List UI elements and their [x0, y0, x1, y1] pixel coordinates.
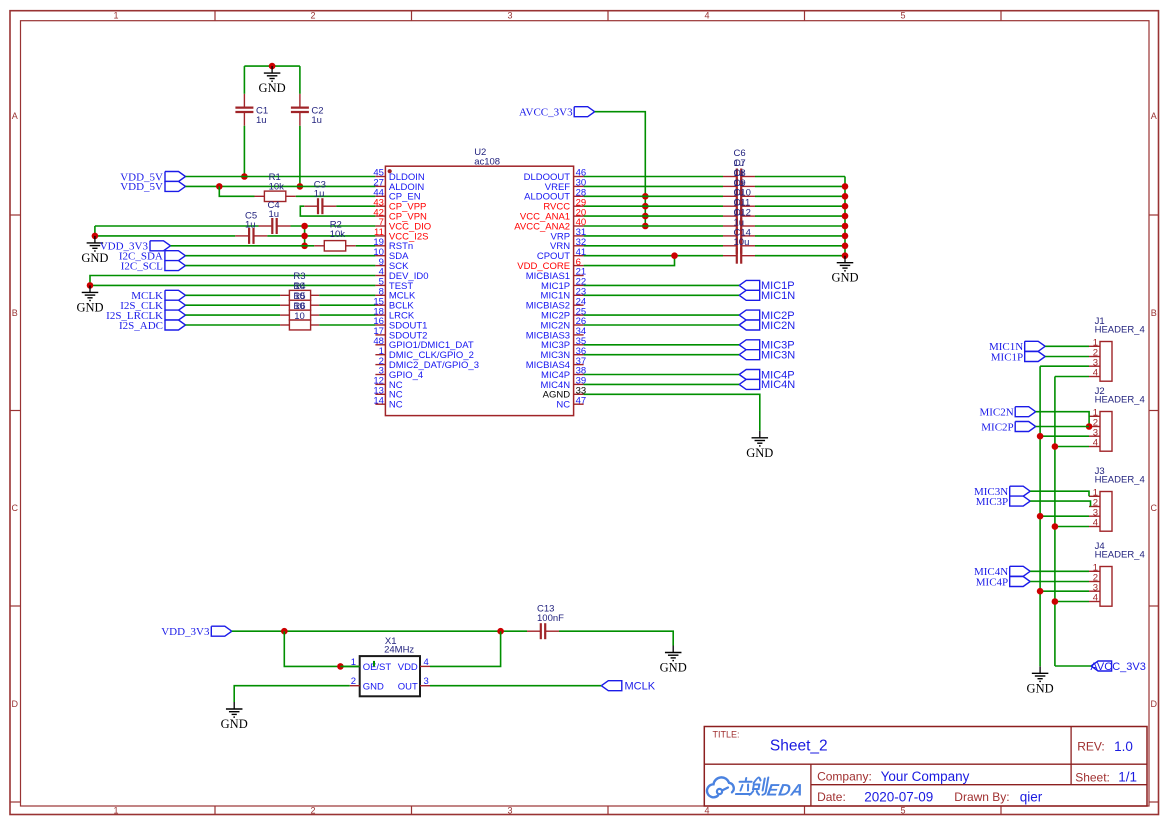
pin 40 AVCC_ANA2: [514, 217, 586, 232]
J3 pin 4: [1089, 518, 1100, 529]
pin 9 SCK: [375, 257, 409, 272]
J2 pin 3: [1089, 427, 1100, 438]
pin 34 MICBIAS3: [526, 326, 586, 341]
pin 39 MIC4N: [541, 376, 587, 391]
bus A vertical: [1039, 366, 1041, 666]
pin 18 LRCK: [373, 306, 415, 321]
wire row11: [95, 235, 235, 237]
pin 15 BCLK: [373, 296, 414, 311]
wire MIC1P pin2: [1045, 356, 1089, 358]
wire cap to bus 2: [755, 195, 845, 197]
pin 8 MCLK: [375, 287, 416, 302]
junction X1 pin1: [337, 663, 344, 670]
resistor R2: [314, 219, 355, 251]
wire J1 pin3: [1040, 365, 1089, 367]
svg-text:REV:: REV:: [1077, 740, 1105, 754]
pin 26 MIC2N: [541, 316, 587, 331]
resistor stack labels: [293, 271, 305, 322]
svg-text:A: A: [12, 111, 18, 121]
wire SCL: [185, 265, 375, 267]
svg-text:5: 5: [900, 806, 905, 816]
ground AGND: [746, 431, 773, 460]
svg-text:MIC4P: MIC4P: [976, 576, 1008, 588]
wire MIC3N jog: [1030, 491, 1089, 496]
junction rail a: [281, 628, 288, 635]
junction busA: [1037, 513, 1044, 520]
wire J2 pin3: [1040, 435, 1089, 437]
wire J2 pin4: [1055, 446, 1089, 448]
svg-text:HEADER_4: HEADER_4: [1095, 324, 1145, 335]
wire to port MIC1P: [584, 284, 740, 286]
pin 46 DLDOOUT: [524, 168, 587, 183]
svg-text:3: 3: [507, 11, 512, 21]
svg-text:VDD: VDD: [398, 662, 418, 673]
wire pin row to cap 2: [584, 195, 723, 197]
pin 42 CP_VPN: [373, 207, 427, 222]
junction GND2: [87, 282, 94, 289]
wire C1 bottom: [243, 126, 245, 177]
junction bus: [842, 213, 849, 220]
svg-text:1/1: 1/1: [1118, 770, 1137, 785]
capacitor C1: [235, 94, 268, 126]
J3 pin 2: [1089, 498, 1100, 509]
svg-text:47: 47: [576, 395, 587, 406]
connector J2 body: [1095, 386, 1145, 451]
bus verticals rows 7-11-19: [304, 226, 306, 246]
pin 5 TEST: [375, 277, 413, 292]
junction bus row19: [301, 243, 308, 250]
wire J4 pin4: [1055, 601, 1089, 603]
junction C1 row45: [241, 173, 248, 180]
wire VDD_5V to pin45: [186, 176, 376, 178]
port MIC1N: [989, 341, 1045, 353]
capacitor bank 0: [723, 169, 755, 185]
svg-text:MIC3N: MIC3N: [761, 350, 795, 362]
J2 pin 1: [1089, 408, 1100, 419]
port MIC1P: [739, 280, 794, 292]
port I2C_SCL: [121, 260, 186, 272]
svg-text:ac108: ac108: [474, 156, 500, 167]
pin 21 MICBIAS1: [526, 267, 586, 282]
capacitor bank 3: [723, 198, 755, 214]
bus B vertical: [1054, 377, 1056, 667]
J4 pin 1: [1089, 563, 1100, 574]
wire X1 pin3 to MCLK: [430, 685, 601, 687]
wire cap to bus 4: [755, 215, 845, 217]
capacitor C4: [259, 200, 291, 234]
capacitor bank 8: [723, 248, 755, 264]
svg-text:NC: NC: [556, 400, 570, 411]
pin 44 CP_EN: [373, 188, 420, 203]
port MIC1N: [739, 290, 795, 302]
wire J3 pin3: [1040, 515, 1089, 517]
svg-text:GND: GND: [221, 717, 248, 731]
svg-text:4: 4: [1093, 438, 1098, 449]
port MCLK: [131, 290, 185, 302]
pin 23 MIC1N: [541, 287, 587, 302]
wire C13 to GND: [559, 631, 673, 645]
ground C13: [660, 646, 687, 675]
junction AVCC: [642, 223, 649, 230]
pin 29 RVCC: [543, 197, 586, 212]
port MIC4N: [739, 379, 795, 391]
svg-text:2: 2: [310, 11, 315, 21]
pin 10 SDA: [373, 247, 409, 262]
junction bus: [842, 243, 849, 250]
pin 7 VCC_DIO: [375, 217, 431, 232]
pin 22 MIC1P: [541, 277, 586, 292]
port MIC3P: [976, 496, 1030, 508]
wire C3 left branch: [300, 206, 375, 216]
junction C2 row27: [297, 183, 304, 190]
svg-text:GND: GND: [660, 661, 687, 675]
svg-text:MIC1N: MIC1N: [761, 290, 795, 302]
port MIC4N: [974, 566, 1030, 578]
junction bus: [842, 183, 849, 190]
J4 pin 3: [1089, 582, 1100, 593]
wire C2 bottom: [299, 126, 301, 187]
wire pin row to cap 6: [584, 235, 723, 237]
port I2S_LRCLK: [106, 310, 185, 322]
J1 pin 2: [1089, 348, 1100, 359]
wire MIC4P pin2: [1030, 581, 1089, 583]
wire I2S_CLK to resistor: [186, 304, 281, 306]
wire C1 top to C2 top: [244, 65, 300, 67]
pin 25 MIC2P: [541, 306, 586, 321]
junction busB: [1052, 523, 1059, 530]
wire cap to bus 5: [755, 225, 845, 227]
wire I2S_LRCLK to resistor: [186, 314, 281, 316]
junction bus: [842, 223, 849, 230]
svg-text:2: 2: [310, 806, 315, 816]
svg-text:2020-07-09: 2020-07-09: [864, 789, 933, 804]
svg-text:4: 4: [1093, 518, 1098, 529]
capacitor C3: [304, 180, 336, 215]
port MIC2N: [979, 407, 1035, 419]
svg-text:10: 10: [294, 311, 305, 322]
pin 12 NC: [373, 376, 402, 391]
ground left 1: [81, 236, 108, 265]
pin 48 GPIO1/DMIC1_DAT: [373, 336, 474, 351]
pin 11 VCC_I2S: [374, 227, 428, 242]
svg-text:I2C_SCL: I2C_SCL: [121, 260, 163, 272]
port MIC1P: [991, 351, 1045, 363]
wire to port MIC2N: [584, 324, 740, 326]
svg-text:MIC3P: MIC3P: [976, 496, 1008, 508]
wire R5 to pin: [319, 314, 375, 316]
connector J3 body: [1095, 466, 1145, 531]
svg-text:1u: 1u: [256, 115, 267, 126]
wire branch down to R1: [219, 186, 254, 196]
wire MIC3P jog: [1030, 501, 1090, 506]
wire pin row to cap 0: [584, 176, 723, 178]
wire to port MIC3N: [584, 354, 740, 356]
ground top: [259, 66, 286, 95]
pin 43 CP_VPP: [373, 197, 426, 212]
wire to port MIC2P: [584, 314, 740, 316]
svg-text:MIC4N: MIC4N: [761, 379, 795, 391]
wire pin row to cap 3: [584, 205, 723, 207]
junction J2: [1086, 423, 1093, 430]
pin 1 DMIC_CLK/GPIO_2: [375, 346, 474, 361]
svg-text:2: 2: [351, 676, 356, 687]
port MCLK bottom: [601, 681, 655, 693]
svg-text:5: 5: [900, 11, 905, 21]
wire MIC2P pin2: [1036, 426, 1089, 428]
connector J1 body: [1095, 316, 1145, 381]
junction busA: [1037, 433, 1044, 440]
wire R2 to pin19: [356, 245, 376, 247]
wire to port MIC3P: [584, 344, 740, 346]
svg-text:3: 3: [507, 806, 512, 816]
svg-text:1.0: 1.0: [1114, 739, 1133, 754]
pin 6 VDD_CORE: [517, 257, 583, 272]
port I2S_CLK: [120, 300, 185, 312]
wire cap to bus 1: [755, 185, 845, 187]
pin 4 DEV_ID0: [375, 267, 428, 282]
svg-text:Sheet:: Sheet:: [1075, 770, 1110, 784]
wire VDD_3V3 to R2: [171, 245, 315, 247]
pin 16 SDOUT1: [373, 316, 427, 331]
junction busA: [1037, 588, 1044, 595]
pin 33 AGND: [543, 386, 587, 401]
port VDD_5V a: [120, 171, 185, 183]
svg-text:HEADER_4: HEADER_4: [1095, 549, 1145, 560]
wire row7 from corner: [94, 226, 96, 236]
junction R1 branch: [216, 183, 223, 190]
resistor R4: [280, 300, 319, 310]
junction AVCC: [642, 213, 649, 220]
capacitor C13: [527, 603, 564, 639]
op-amp U2 ac108 body: [385, 147, 573, 416]
pin 47 NC: [556, 395, 586, 410]
svg-text:4: 4: [704, 806, 709, 816]
wire VDD_CORE: [584, 256, 675, 266]
J1 pin 4: [1089, 368, 1100, 379]
wire C3 to pin43: [336, 205, 375, 207]
wire pin row to cap 1: [584, 185, 723, 187]
svg-text:qier: qier: [1020, 789, 1043, 804]
svg-text:Your Company: Your Company: [881, 769, 970, 784]
capacitor bank 6: [723, 228, 755, 244]
svg-text:Date:: Date:: [817, 790, 846, 804]
svg-text:NC: NC: [389, 400, 403, 411]
svg-text:B: B: [1151, 308, 1157, 318]
wire J1 pin4: [1055, 376, 1089, 378]
wire cap to bus 0: [755, 176, 845, 178]
wire cap to bus 6: [755, 235, 845, 237]
pin 28 ALDOOUT: [524, 188, 586, 203]
port AVCC_3V3 bottom: [1090, 661, 1145, 673]
svg-text:10u: 10u: [734, 237, 750, 248]
junction rail b: [497, 628, 504, 635]
svg-text:1u: 1u: [311, 115, 322, 126]
wire C4 to bus: [291, 225, 376, 227]
J4 pin 2: [1089, 573, 1100, 584]
svg-text:3: 3: [424, 676, 429, 687]
wire AGND: [584, 394, 760, 431]
svg-text:A: A: [1151, 111, 1157, 121]
svg-text:Drawn By:: Drawn By:: [954, 790, 1009, 804]
wire J3 pin4: [1055, 526, 1089, 528]
svg-text:24MHz: 24MHz: [384, 645, 414, 656]
port MIC2P: [981, 421, 1035, 433]
wire R4 to pin: [319, 304, 375, 306]
svg-text:C: C: [11, 503, 18, 513]
svg-text:10k: 10k: [269, 181, 285, 192]
svg-text:VDD_5V: VDD_5V: [120, 181, 163, 193]
pin 19 RSTn: [373, 237, 413, 252]
J4 pin 4: [1089, 593, 1100, 604]
port VDD_5V b: [120, 181, 185, 193]
svg-text:VDD_3V3: VDD_3V3: [161, 626, 210, 638]
svg-text:TITLE:: TITLE:: [713, 730, 740, 740]
junction top GND: [269, 63, 276, 70]
ground cap bank: [831, 256, 858, 285]
svg-text:Company:: Company:: [817, 769, 872, 783]
wire R6 to pin: [319, 324, 375, 326]
svg-text:GND: GND: [831, 271, 858, 285]
pin 17 SDOUT2: [373, 326, 427, 341]
junction bus row7: [301, 223, 308, 230]
wire I2S_ADC to resistor: [186, 324, 281, 326]
resistor R1: [254, 172, 295, 202]
J2 pin 2: [1089, 418, 1100, 429]
junction AVCC: [642, 193, 649, 200]
port MIC3N: [739, 350, 795, 362]
resistor R6: [280, 320, 319, 330]
wire MCLK to resistor: [186, 294, 281, 296]
wire MIC2N jog: [1036, 412, 1089, 427]
wire into X1 pin1 overlay: [340, 665, 359, 667]
pin 37 MICBIAS4: [526, 356, 586, 371]
wire row4 DEV_ID0: [90, 276, 375, 286]
pin 35 MIC3P: [541, 336, 586, 351]
title block: [704, 727, 1147, 807]
svg-text:OE/ST: OE/ST: [363, 662, 392, 673]
svg-text:MIC2N: MIC2N: [761, 320, 795, 332]
resistor R5: [280, 310, 319, 320]
wire row5 TEST: [90, 284, 375, 286]
junction bus: [842, 193, 849, 200]
port I2C_SDA: [119, 251, 186, 263]
port VDD_3V3: [100, 241, 171, 253]
cap bank labels: [734, 148, 751, 248]
capacitor bank 7: [723, 238, 755, 254]
svg-text:Sheet_2: Sheet_2: [770, 738, 828, 755]
resistor R3: [280, 290, 319, 300]
port MIC2P: [739, 310, 794, 322]
port I2S_ADC: [119, 320, 186, 332]
wire C5 to bus: [267, 235, 375, 237]
capacitor bank 4: [723, 208, 755, 224]
svg-text:MIC2P: MIC2P: [981, 421, 1013, 433]
port VDD_3V3 bottom: [161, 626, 232, 638]
pin 27 ALDOIN: [373, 178, 424, 193]
pin 36 MIC3N: [541, 346, 587, 361]
svg-text:GND: GND: [259, 81, 286, 95]
wire pin row to cap 7: [584, 245, 723, 247]
J1 pin 1: [1089, 338, 1100, 349]
J3 pin 1: [1089, 488, 1100, 499]
svg-text:C: C: [1150, 503, 1157, 513]
junction busB: [1052, 443, 1059, 450]
svg-text:HEADER_4: HEADER_4: [1095, 474, 1145, 485]
bus right vertical: [844, 177, 846, 256]
wire pin row to cap 4: [584, 215, 723, 217]
svg-text:D: D: [11, 699, 18, 709]
pin 13 NC: [373, 386, 402, 401]
ground headers: [1027, 666, 1054, 695]
wire C2 vertical: [299, 66, 301, 94]
svg-text:GND: GND: [746, 446, 773, 460]
port MIC2N: [739, 320, 795, 332]
svg-text:MIC1P: MIC1P: [991, 351, 1023, 363]
pin 31 VRP: [551, 227, 587, 242]
svg-text:4: 4: [424, 657, 429, 668]
capacitor C5: [235, 211, 267, 244]
pin 3 GPIO_4: [375, 366, 423, 381]
connector J4 body: [1095, 541, 1145, 606]
wire R1 to pin44: [296, 195, 376, 197]
pin 32 VRN: [550, 237, 586, 252]
svg-text:I2S_ADC: I2S_ADC: [119, 320, 163, 332]
svg-text:AVCC_3V3: AVCC_3V3: [519, 107, 573, 119]
wire MIC4N pin1: [1030, 570, 1089, 572]
svg-text:HEADER_4: HEADER_4: [1095, 394, 1145, 405]
wire X1 pin1 branch: [284, 631, 359, 666]
wire pin row to cap 5: [584, 225, 723, 227]
junction bus: [842, 203, 849, 210]
svg-text:10k: 10k: [330, 229, 346, 240]
svg-text:4: 4: [1093, 593, 1098, 604]
wire C1 vertical: [243, 66, 245, 94]
wire X1 pin2 to GND: [234, 686, 350, 702]
port MIC4P: [739, 369, 794, 381]
ground left 2: [76, 285, 103, 314]
svg-text:MIC2N: MIC2N: [979, 407, 1013, 419]
svg-text:1u: 1u: [314, 188, 325, 199]
wire VDD_5V to pin27: [186, 185, 376, 187]
wire cap to bus 3: [755, 205, 845, 207]
wire AVCC_3V3: [595, 112, 646, 226]
wire busB to AVCC: [1055, 665, 1091, 667]
capacitor bank 5: [723, 218, 755, 234]
wire cap to bus 8: [755, 255, 845, 257]
svg-text:GND: GND: [363, 681, 384, 692]
wire SDA: [185, 255, 375, 257]
port MIC3N: [974, 486, 1030, 498]
svg-text:1u: 1u: [269, 209, 280, 220]
pin 41 CPOUT: [537, 247, 586, 262]
J2 pin 4: [1089, 438, 1100, 449]
wire to port MIC4N: [584, 383, 740, 385]
capacitor bank 2: [723, 188, 755, 204]
pin 45 DLDOIN: [373, 168, 425, 183]
junction GND1: [92, 233, 99, 240]
svg-text:4: 4: [1093, 368, 1098, 379]
junction bus: [842, 233, 849, 240]
wire R3 to pin: [319, 294, 375, 296]
capacitor bank 1: [723, 178, 755, 194]
port MIC4P: [976, 576, 1030, 588]
pin 24 MICBIAS2: [526, 296, 586, 311]
svg-text:D: D: [1150, 699, 1157, 709]
svg-text:1u: 1u: [245, 220, 256, 231]
svg-text:MCLK: MCLK: [625, 681, 656, 693]
ground X1: [221, 702, 248, 731]
logo LCEDA: [707, 777, 805, 799]
